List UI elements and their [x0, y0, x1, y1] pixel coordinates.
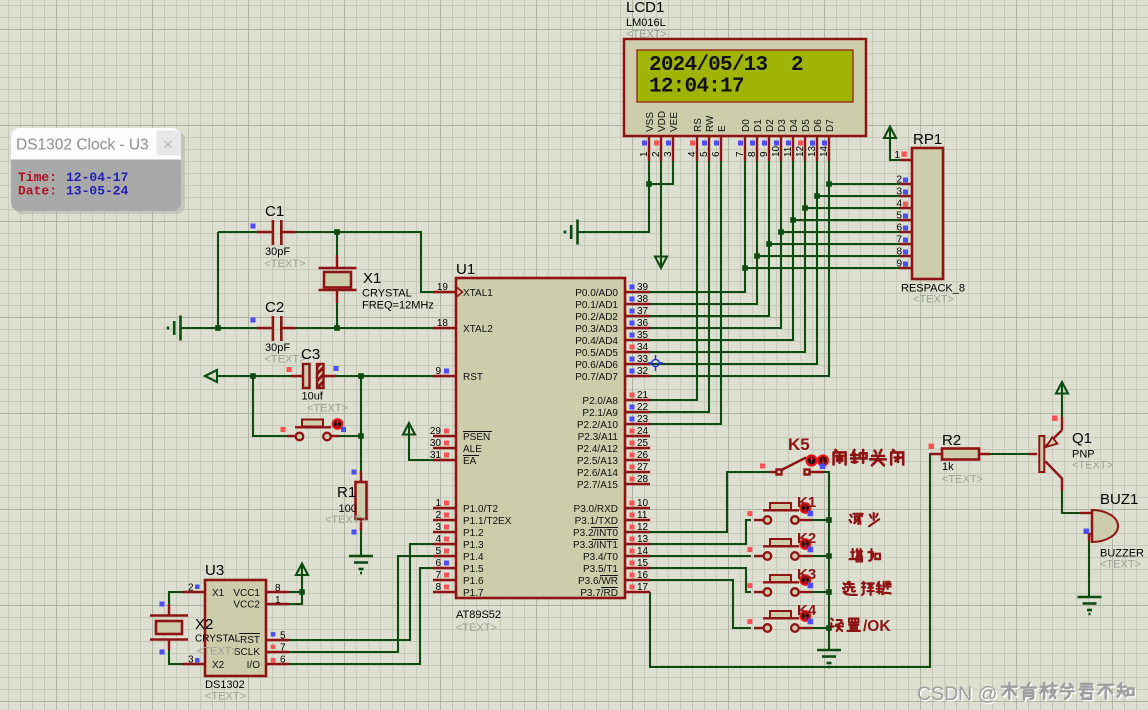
svg-text:VCC1: VCC1	[233, 588, 260, 599]
svg-text:<TEXT>: <TEXT>	[913, 294, 954, 306]
resistor R1	[325, 470, 367, 535]
wire LCD D4 down to P0.4	[650, 161, 793, 340]
svg-text:8: 8	[275, 583, 281, 594]
U1 pin 35 P0.4/AD4	[625, 339, 650, 341]
svg-text:7: 7	[435, 570, 441, 581]
svg-text:7: 7	[735, 151, 746, 157]
svg-text:K3: K3	[797, 566, 816, 583]
wire LCD VDD down to power	[660, 161, 662, 266]
U1 pin 4 P1.3	[433, 543, 456, 545]
svg-text:18: 18	[437, 318, 449, 329]
svg-text:K4: K4	[797, 602, 817, 619]
RTC U3 DS1302	[182, 562, 289, 703]
U1 pin 36 P0.3/AD3	[625, 327, 650, 329]
LCD1 pin 6 E	[720, 136, 722, 161]
wire reset terminal to C3 left	[217, 375, 301, 377]
wire C2 right to XTAL2	[283, 327, 433, 329]
push button K3	[747, 566, 816, 596]
wire D6 branch to RP1	[817, 195, 900, 197]
U1 pin 23 P2.2/A10	[625, 423, 650, 425]
wire D4 branch to RP1	[793, 219, 900, 221]
power terminal VCC at RP1	[884, 127, 896, 139]
svg-text:VCC2: VCC2	[233, 600, 260, 611]
LCD1 pin 11 D4	[792, 136, 794, 161]
RP1 pin 3	[900, 195, 912, 197]
svg-text:<TEXT>: <TEXT>	[456, 622, 497, 634]
U1 pin 12 P3.2/INT0	[625, 531, 650, 533]
svg-text:1: 1	[435, 498, 441, 509]
node X1/C2 junction	[334, 325, 340, 331]
svg-text:D1: D1	[753, 119, 764, 132]
svg-text:P3.6/WR: P3.6/WR	[578, 576, 618, 587]
RP1 pin 5	[900, 219, 912, 221]
node D7 junction	[826, 181, 832, 187]
svg-text:RST: RST	[463, 372, 483, 383]
U1 pin 30 ALE	[433, 447, 456, 449]
RP1 pin 2	[900, 183, 912, 185]
wire K1 right to rail	[812, 519, 829, 521]
svg-text:9: 9	[896, 259, 902, 270]
svg-text:RP1: RP1	[913, 131, 942, 148]
capacitor C3	[287, 346, 348, 415]
wire P1.5 to DS1302 I/O	[289, 568, 433, 664]
node VSS/VEE junction	[646, 181, 652, 187]
U1 pin 11 P3.1/TXD	[625, 519, 650, 521]
wire P1.4 to DS1302 SCLK	[289, 556, 433, 652]
svg-text:21: 21	[637, 390, 649, 401]
svg-text:D6: D6	[813, 119, 824, 132]
svg-text:24: 24	[637, 426, 649, 437]
svg-text:X2: X2	[212, 660, 225, 671]
svg-text:28: 28	[637, 474, 649, 485]
U1 pin 17 P3.7/RD	[625, 591, 650, 593]
ground at C2	[168, 316, 181, 341]
resistor R2	[929, 432, 983, 486]
svg-text:1: 1	[639, 151, 650, 157]
svg-text:5: 5	[435, 546, 441, 557]
node U3 VCC junction	[299, 589, 305, 595]
svg-text:6: 6	[280, 655, 286, 666]
svg-text:10: 10	[637, 498, 649, 509]
svg-text:P1.3: P1.3	[463, 540, 484, 551]
RP1 pin 7	[900, 243, 912, 245]
power terminal VCC at U3	[296, 564, 308, 576]
svg-text:LCD1: LCD1	[626, 0, 664, 16]
svg-text:38: 38	[637, 294, 649, 305]
svg-text:P1.5: P1.5	[463, 564, 484, 575]
svg-text:12: 12	[795, 145, 806, 157]
svg-text:P1.1/T2EX: P1.1/T2EX	[463, 516, 512, 527]
svg-text:EA: EA	[463, 456, 477, 467]
node K3 rail junction	[826, 589, 832, 595]
svg-text:P0.4/AD4: P0.4/AD4	[575, 336, 618, 347]
svg-text:U1: U1	[456, 261, 475, 278]
svg-text:K2: K2	[797, 530, 816, 547]
svg-text:P2.3/A11: P2.3/A11	[578, 432, 619, 443]
LCD LCD1 LM016L	[624, 0, 866, 161]
U1 pin 19 XTAL1	[433, 291, 456, 293]
node X1/C1 junction	[334, 229, 340, 235]
resistor pack RP1 RESPACK_8	[894, 131, 965, 306]
terminal reset arrow	[205, 370, 217, 382]
wire LCD VSS down to ground	[578, 161, 649, 232]
svg-text:P0.0/AD0: P0.0/AD0	[575, 288, 618, 299]
svg-text:3: 3	[896, 187, 902, 198]
U1 pin 25 P2.4/A12	[625, 447, 650, 449]
svg-text:P2.5/A13: P2.5/A13	[577, 456, 619, 467]
node D0 junction	[742, 265, 748, 271]
capacitor C2	[251, 299, 306, 366]
U1 pin 38 P0.1/AD1	[625, 303, 650, 305]
node D2 junction	[766, 241, 772, 247]
LCD1 pin 3 VEE	[672, 136, 674, 161]
wire LCD D6 down to P0.6	[650, 161, 817, 364]
RP1 pin 8	[900, 255, 912, 257]
node C1/C2 left junction	[215, 325, 221, 331]
svg-text:3: 3	[435, 522, 441, 533]
svg-text:U3: U3	[205, 562, 224, 579]
svg-text:6: 6	[896, 223, 902, 234]
svg-text:Date:: Date:	[18, 184, 57, 199]
svg-text:RS: RS	[693, 118, 704, 132]
svg-text:R1: R1	[337, 484, 356, 501]
U1 pin 21 P2.0/A8	[625, 399, 650, 401]
wire RP1 pin1 to power arrow	[890, 126, 900, 160]
U1 pin 29 PSEN	[433, 435, 456, 437]
U1 pin 37 P0.2/AD2	[625, 315, 650, 317]
svg-text:C1: C1	[265, 203, 284, 220]
svg-text:P2.4/A12: P2.4/A12	[577, 444, 619, 455]
svg-text:P3.7/RD: P3.7/RD	[580, 588, 618, 599]
svg-text:2: 2	[435, 510, 441, 521]
svg-text:29: 29	[430, 426, 442, 437]
wire P1.3 to DS1302 RST	[289, 544, 433, 640]
svg-text:VDD: VDD	[657, 111, 668, 132]
LCD1 pin 12 D5	[804, 136, 806, 161]
svg-text:<TEXT>: <TEXT>	[265, 354, 306, 366]
ground below R1	[349, 556, 373, 573]
wire U3 power arrow to VCC2	[289, 566, 302, 605]
svg-text:/OK: /OK	[863, 618, 891, 635]
svg-text:8: 8	[747, 151, 758, 157]
svg-text:6: 6	[711, 151, 722, 157]
svg-text:11: 11	[637, 510, 648, 521]
wire buzzer to ground	[1088, 541, 1090, 597]
wire X2 bottom to U3 X2 pin	[169, 640, 187, 664]
svg-text:4: 4	[896, 199, 902, 210]
U1 pin 10 P3.0/RXD	[625, 507, 650, 509]
crystal X1	[319, 268, 434, 312]
svg-text:P0.6/AD6: P0.6/AD6	[575, 360, 618, 371]
svg-text:P2.0/A8: P2.0/A8	[582, 396, 618, 407]
wire LCD D3 down to P0.3	[650, 161, 781, 328]
svg-text:P1.7: P1.7	[463, 588, 484, 599]
U1 pin 18 XTAL2	[433, 327, 456, 329]
svg-text:D2: D2	[765, 119, 776, 132]
svg-text:XTAL1: XTAL1	[463, 288, 493, 299]
wire K5 right to ground rail	[824, 472, 829, 649]
svg-text:P0.1/AD1: P0.1/AD1	[575, 300, 618, 311]
svg-text:LM016L: LM016L	[626, 17, 666, 29]
wire P3.4 to K2 left	[650, 555, 751, 557]
svg-text:D0: D0	[741, 119, 752, 132]
svg-text:X2: X2	[195, 616, 213, 633]
svg-text:P1.0/T2: P1.0/T2	[463, 504, 498, 515]
RP1 pin 9	[900, 267, 912, 269]
svg-text:13: 13	[807, 145, 818, 157]
svg-text:32: 32	[637, 366, 649, 377]
svg-text:2: 2	[791, 54, 804, 77]
svg-text:P1.6: P1.6	[463, 576, 484, 587]
U1 pin 14 P3.4/T0	[625, 555, 650, 557]
svg-text:6: 6	[435, 558, 441, 569]
wire P3.2 to K5 left	[650, 472, 770, 532]
wire LCD D7 down to P0.7	[650, 161, 829, 376]
svg-text:AT89S52: AT89S52	[456, 609, 501, 621]
svg-text:35: 35	[637, 330, 649, 341]
svg-text:30pF: 30pF	[265, 342, 290, 354]
svg-text:4: 4	[687, 151, 698, 157]
svg-text:RW: RW	[705, 115, 716, 132]
wire Q1 emitter to power arrow	[1061, 384, 1063, 430]
pin stubs (dark red segments)	[169, 232, 1062, 650]
LCD1 pin 13 D6	[816, 136, 818, 161]
wire C1 left to left rail	[218, 231, 272, 233]
U1 pin 5 P1.4	[433, 555, 456, 557]
LCD1 pin 8 D1	[756, 136, 758, 161]
svg-text:P1.2: P1.2	[463, 528, 484, 539]
wire ground to C2 left	[181, 327, 272, 329]
wire D5 branch to RP1	[805, 207, 900, 209]
svg-text:31: 31	[430, 450, 442, 461]
node K1 rail junction	[826, 517, 832, 523]
svg-text:10: 10	[771, 145, 782, 157]
svg-text:P0.5/AD5: P0.5/AD5	[575, 348, 618, 359]
svg-text:<TEXT>: <TEXT>	[1100, 559, 1141, 571]
svg-text:5: 5	[896, 211, 902, 222]
svg-text:7: 7	[280, 643, 286, 654]
wire C3 right to RST pin	[326, 375, 433, 377]
LCD1 pin 4 RS	[696, 136, 698, 161]
U1 pin 9 RST	[433, 375, 456, 377]
transistor Q1 PNP	[1029, 416, 1113, 479]
U1 pin 16 P3.6/WR	[625, 579, 650, 581]
svg-text:P2.6/A14: P2.6/A14	[577, 468, 619, 479]
wire D3 branch to RP1	[781, 231, 900, 233]
svg-text:P3.2/INT0: P3.2/INT0	[573, 528, 618, 539]
svg-text:1: 1	[275, 595, 281, 606]
svg-text:PSEN: PSEN	[463, 432, 490, 443]
wire button right to junction	[339, 435, 361, 437]
svg-text:8: 8	[435, 582, 441, 593]
svg-text:E: E	[717, 125, 728, 132]
wire Q1 collector to buzzer	[1062, 478, 1080, 513]
svg-text:<TEXT>: <TEXT>	[197, 646, 238, 658]
U1 pin 22 P2.1/A9	[625, 411, 650, 413]
U1 pin 27 P2.6/A14	[625, 471, 650, 473]
svg-text:VEE: VEE	[669, 112, 680, 132]
watermark CSDN	[918, 684, 1134, 706]
U1 pin 8 P1.7	[433, 591, 456, 593]
U1 pin 6 P1.5	[433, 567, 456, 569]
LCD1 pin 5 RW	[708, 136, 710, 161]
node D1 junction	[754, 253, 760, 259]
node reset net junction left	[250, 373, 256, 379]
wire X2 top to U3 X1	[169, 592, 187, 614]
wire X1 top to C1 net	[336, 232, 338, 268]
wire LCD RW to P2.1	[650, 161, 709, 412]
U1 pin 1 P1.0/T2	[433, 507, 456, 509]
svg-text:<TEXT>: <TEXT>	[307, 403, 348, 415]
svg-text:X1: X1	[212, 588, 225, 599]
svg-text:34: 34	[637, 342, 649, 353]
wire D7 branch to RP1	[829, 183, 900, 185]
svg-text:DS1302: DS1302	[205, 679, 245, 691]
power terminal VCC at EA	[403, 423, 415, 435]
svg-text:CRYSTAL: CRYSTAL	[195, 634, 241, 645]
svg-text:30: 30	[430, 438, 442, 449]
svg-text:P0.2/AD2: P0.2/AD2	[575, 312, 618, 323]
U1 pin 7 P1.6	[433, 579, 456, 581]
wire P3.5 to K3 left	[650, 568, 751, 592]
svg-text:9: 9	[759, 151, 770, 157]
svg-text:K5: K5	[788, 435, 810, 454]
U1 pin 33 P0.6/AD6	[625, 363, 650, 365]
svg-text:<TEXT>: <TEXT>	[1072, 460, 1113, 472]
node reset net junction right	[358, 373, 364, 379]
U1 pin 2 P1.1/T2EX	[433, 519, 456, 521]
RP1 pin 1	[900, 159, 912, 161]
U1 pin 32 P0.7/AD7	[625, 375, 650, 377]
U1 pin 24 P2.3/A11	[625, 435, 650, 437]
U3 pins 8,1,5,7,6 (VCC1,VCC2,RST,SCLK,I/O)	[266, 591, 289, 593]
svg-text:19: 19	[437, 282, 449, 293]
svg-text:P3.3/INT1: P3.3/INT1	[573, 540, 618, 551]
wire P3.7 long route to R2	[650, 454, 934, 667]
svg-text:14: 14	[637, 546, 649, 557]
wire LCD D1 down to P0.1	[650, 161, 757, 304]
svg-text:<TEXT>: <TEXT>	[265, 258, 306, 270]
svg-text:D3: D3	[777, 119, 788, 132]
svg-text:P2.1/A9: P2.1/A9	[582, 408, 618, 419]
svg-text:17: 17	[637, 582, 649, 593]
svg-text:K1: K1	[797, 494, 816, 511]
svg-text:15: 15	[637, 558, 649, 569]
svg-text:ALE: ALE	[463, 444, 482, 455]
svg-text:D5: D5	[801, 119, 812, 132]
svg-text:2: 2	[896, 175, 902, 186]
svg-text:VSS: VSS	[645, 112, 656, 132]
wire K3 right to rail	[812, 591, 829, 593]
mouse cursor crosshair	[648, 355, 663, 371]
svg-text:27: 27	[637, 462, 649, 473]
wire P3.3 to K1 left	[650, 520, 751, 544]
svg-text:12:04:17: 12:04:17	[649, 76, 744, 99]
svg-text:P1.4: P1.4	[463, 552, 484, 563]
svg-text:5: 5	[280, 631, 286, 642]
node D5 junction	[802, 205, 808, 211]
node D4 junction	[790, 217, 796, 223]
svg-text:P3.5/T1: P3.5/T1	[583, 564, 618, 575]
svg-text:P3.0/RXD: P3.0/RXD	[574, 504, 618, 515]
node K2 rail junction	[826, 553, 832, 559]
svg-text:23: 23	[637, 414, 649, 425]
svg-text:RST: RST	[240, 635, 260, 646]
svg-text:37: 37	[637, 306, 649, 317]
svg-text:P3.4/T0: P3.4/T0	[583, 552, 618, 563]
wire VCC1 to power net	[289, 591, 302, 593]
node D6 junction	[814, 193, 820, 199]
wire D0 branch to RP1	[745, 267, 900, 269]
svg-text:39: 39	[637, 282, 649, 293]
svg-text:30pF: 30pF	[265, 246, 290, 258]
svg-text:8: 8	[896, 247, 902, 258]
svg-text:CSDN @: CSDN @	[917, 683, 997, 705]
wire X1 bottom to C2 net	[336, 290, 338, 328]
LCD1 pin 9 D2	[768, 136, 770, 161]
power terminal VCC at Q1 emitter	[1056, 382, 1068, 394]
LCD1 pin 10 D3	[780, 136, 782, 161]
wire LCD D5 down to P0.5	[650, 161, 805, 352]
LCD1 pin 1 VSS	[648, 136, 650, 161]
svg-text:4: 4	[435, 534, 441, 545]
svg-text:X1: X1	[363, 270, 381, 287]
U1 pin 28 P2.7/A15	[625, 483, 650, 485]
wire K4 right to rail	[812, 627, 829, 629]
wire LCD E to P2.2	[650, 161, 721, 424]
RP1 pin 4	[900, 207, 912, 209]
svg-text:10uf: 10uf	[302, 391, 324, 403]
svg-text:1k: 1k	[942, 461, 954, 473]
svg-text:36: 36	[637, 318, 649, 329]
U1 pin 15 P3.5/T1	[625, 567, 650, 569]
svg-text:11: 11	[783, 146, 794, 157]
svg-text:C3: C3	[301, 346, 320, 363]
switch K5	[760, 435, 828, 475]
svg-text:D4: D4	[789, 119, 800, 132]
svg-text:13-05-24: 13-05-24	[66, 184, 129, 199]
svg-text:26: 26	[637, 450, 649, 461]
svg-text:2024/05/13: 2024/05/13	[649, 54, 767, 77]
svg-text:<TEXT>: <TEXT>	[626, 29, 667, 41]
svg-text:CRYSTAL: CRYSTAL	[362, 288, 412, 300]
node button/R1 junction	[358, 433, 364, 439]
LCD1 pin 2 VDD	[660, 136, 662, 161]
svg-text:16: 16	[637, 570, 649, 581]
svg-text:P2.2/A10: P2.2/A10	[577, 420, 619, 431]
svg-text:FREQ=12MHz: FREQ=12MHz	[362, 300, 434, 312]
ground below keys	[817, 650, 841, 667]
buzzer BUZ1	[1080, 491, 1144, 571]
svg-text:XTAL2: XTAL2	[463, 324, 493, 335]
svg-text:DS1302 Clock - U3: DS1302 Clock - U3	[16, 137, 149, 154]
wire LCD D2 down to P0.2	[650, 161, 769, 316]
label alarm-off (K5)	[834, 450, 904, 465]
wire LCD D0 down to P0.0	[650, 161, 745, 292]
wire LCD RS to P2.0	[650, 161, 697, 400]
label set/OK (K4)	[831, 618, 891, 635]
svg-text:5: 5	[699, 151, 710, 157]
push button K2	[747, 530, 816, 560]
U1 pin 3 P1.2	[433, 531, 456, 533]
svg-text:22: 22	[637, 402, 649, 413]
crystal X2	[150, 602, 241, 658]
RP1 pin 6	[900, 231, 912, 233]
svg-text:13: 13	[637, 534, 649, 545]
MCU U1 AT89S52	[430, 261, 650, 634]
svg-text:P0.7/AD7: P0.7/AD7	[575, 372, 618, 383]
label decrease (K1)	[850, 513, 880, 526]
